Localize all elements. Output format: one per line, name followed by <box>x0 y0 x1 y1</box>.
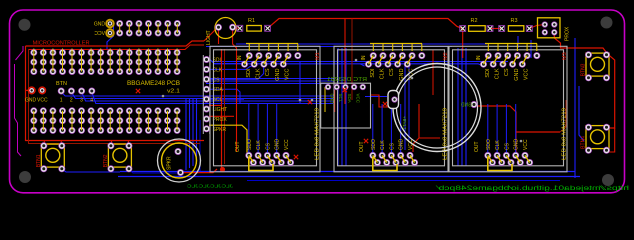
wire blue verticals M2 <box>337 48 339 166</box>
module U2 RTC DS3231 outline <box>321 83 371 128</box>
wire yellow M3 out bracket <box>488 157 512 171</box>
connector U1 microcontroller lower pad rows <box>31 108 37 114</box>
connector J2 outline <box>202 55 204 134</box>
svg-text:BTN3: BTN3 <box>581 63 587 76</box>
svg-text:CLK: CLK <box>495 68 501 79</box>
svg-text:2: 2 <box>70 98 73 104</box>
svg-text:+BAT1: +BAT1 <box>402 116 407 130</box>
switch BTN3 <box>586 53 609 76</box>
wire blue verticals left <box>185 98 187 170</box>
svg-text:BTN1: BTN1 <box>36 154 42 167</box>
wire blue J2 stubs <box>210 60 245 65</box>
svg-text:GND: GND <box>275 68 281 80</box>
svg-text:M2: M2 <box>443 52 449 60</box>
wire blue bus top <box>206 46 452 48</box>
wire yellow M2 out bracket <box>373 157 397 171</box>
svg-text:GND: GND <box>94 22 106 28</box>
svg-text:CLK: CLK <box>213 67 223 73</box>
svg-text:GND: GND <box>461 103 473 109</box>
wire blue M1 bottom drops <box>248 104 250 153</box>
svg-text:CLK: CLK <box>256 140 262 150</box>
wire yellow mcu column joins upper <box>33 49 35 72</box>
svg-text:VCC: VCC <box>523 139 529 150</box>
svg-text:SPKR: SPKR <box>167 156 173 170</box>
battery BT1 holder outer circle <box>393 64 481 152</box>
svg-text:R1: R1 <box>248 18 255 24</box>
svg-text:R2: R2 <box>471 18 478 24</box>
pad light 1 <box>215 24 221 30</box>
svg-text:LED 8x8 MAX7219: LED 8x8 MAX7219 <box>443 108 449 160</box>
wire red microcontroller box <box>26 46 205 141</box>
connector M1 OUT header pads <box>246 152 252 158</box>
svg-text:SDI: SDI <box>246 68 252 78</box>
connector M3 IN header pads <box>485 53 491 59</box>
connector U1 microcontroller upper pad rows <box>31 49 37 55</box>
svg-text:GND: GND <box>275 139 281 151</box>
svg-text:SDO: SDO <box>247 139 253 150</box>
svg-text:LIGHT: LIGHT <box>206 30 212 45</box>
wire yellow M2 out zigzag <box>373 155 378 162</box>
wire red M2 header drops <box>344 19 346 105</box>
svg-text:BTN2: BTN2 <box>103 154 109 167</box>
pad light 2 <box>230 24 236 30</box>
switch BTN4 <box>586 126 609 149</box>
svg-text:IN: IN <box>476 55 482 60</box>
wire yellow mcu column joins lower <box>33 111 35 131</box>
svg-text:R3: R3 <box>511 18 518 24</box>
svg-text:GND: GND <box>399 139 405 151</box>
wire red r1 chain to r2 r3 prox <box>233 27 240 28</box>
svg-text:GND: GND <box>25 98 37 104</box>
pad GND red ring <box>28 87 35 94</box>
svg-text:VCC: VCC <box>284 139 290 150</box>
wire blue M2 bottom drops <box>372 104 374 153</box>
pad spkr 2 <box>177 169 183 175</box>
wire yellow M1 out zigzag <box>249 155 254 162</box>
wire red m3 bottom <box>516 131 560 133</box>
svg-text:CS: CS <box>504 68 510 76</box>
pad battery gnd <box>471 101 477 107</box>
wire yellow M2 header top bar <box>370 43 422 45</box>
svg-text:3: 3 <box>80 98 83 104</box>
svg-text:CLK: CLK <box>380 140 386 150</box>
svg-text:BTN4: BTN4 <box>581 136 587 149</box>
svg-text:M3: M3 <box>562 52 568 60</box>
wire blue vertical right <box>574 38 576 178</box>
svg-text:OUT: OUT <box>235 141 241 152</box>
resistor R2 <box>469 26 486 32</box>
wire yellow M3 zigzag <box>484 56 489 65</box>
wire red rtc to battery <box>371 95 390 107</box>
board edge outline <box>10 10 625 193</box>
wire blue bottom rails <box>120 171 575 173</box>
wire yellow M1 out bracket <box>249 157 273 171</box>
wire yellow M3 header top bar <box>485 43 537 45</box>
wire blue top-left curve <box>107 26 114 50</box>
svg-text:VCC: VCC <box>94 31 105 37</box>
svg-text:CLK: CLK <box>256 68 262 79</box>
svg-text:IN: IN <box>361 55 367 60</box>
connector M2 OUT header pads <box>370 152 376 158</box>
module M2 LED 8x8 MAX7219 outline <box>334 46 448 172</box>
svg-text:VCC: VCC <box>524 68 530 80</box>
speaker SPKR outer circle <box>158 139 201 182</box>
wire yellow M1 header top bar <box>246 43 298 45</box>
wire red battery gnd right <box>478 106 516 152</box>
battery BT1 holder inner circle <box>397 67 478 148</box>
svg-text:GND: GND <box>514 68 520 80</box>
wire red vertical pair through M1 <box>221 49 223 168</box>
connector M3 OUT header pads <box>485 152 491 158</box>
switch BTN2 <box>108 144 131 167</box>
ratsnest x rtc <box>343 88 347 92</box>
svg-text:VCC: VCC <box>285 68 291 80</box>
svg-text:RTC DS3231: RTC DS3231 <box>327 77 367 83</box>
pad VCC red ring <box>39 87 46 94</box>
wire red r2 drop <box>462 29 464 58</box>
switch BTN1 <box>41 144 64 167</box>
svg-text:CS: CS <box>389 142 395 150</box>
svg-text:CLK: CLK <box>380 68 386 79</box>
pad battery positive <box>392 97 398 103</box>
connector PROX pads <box>542 22 548 28</box>
wire yellow rtc left <box>324 87 326 112</box>
wire blue R2 drop <box>517 36 519 48</box>
mounting hole bottom-left <box>19 171 31 183</box>
ratsnest marks <box>383 102 387 106</box>
photoresistor LIGHT outline <box>215 18 236 39</box>
svg-text:SCL: SCL <box>338 94 343 103</box>
connector J1 power header pads <box>106 20 113 27</box>
svg-text:LED 8x8 MAX7219: LED 8x8 MAX7219 <box>315 108 321 160</box>
module M3 LED 8x8 MAX7219 outline <box>449 46 567 172</box>
svg-text:CLK: CLK <box>495 140 501 150</box>
svg-text:SDI: SDI <box>370 68 376 78</box>
svg-text:VCC: VCC <box>356 94 361 104</box>
svg-text:LED 8x8 MAX7219: LED 8x8 MAX7219 <box>562 108 568 160</box>
svg-text:PROX: PROX <box>213 117 228 123</box>
svg-text:BBGAME248 PCB: BBGAME248 PCB <box>127 81 180 87</box>
connector J2 signal column <box>203 56 209 62</box>
svg-text:CS: CS <box>265 68 271 76</box>
svg-text:SDA: SDA <box>213 87 224 93</box>
svg-text:SDI: SDI <box>485 68 491 78</box>
speaker SPKR inner circle <box>162 143 197 178</box>
wire blue bus horizontal mid <box>212 61 508 63</box>
wire blue header bends M2 M3 <box>360 64 365 66</box>
svg-text:SDO: SDO <box>371 139 377 150</box>
svg-text:BTN: BTN <box>56 81 67 87</box>
wire magenta left squiggle <box>16 46 24 60</box>
wire yellow M1 zigzag <box>245 56 250 65</box>
svg-text:JLCJLCJLCJLC: JLCJLCJLCJLC <box>186 184 233 189</box>
svg-text:CS: CS <box>265 142 271 150</box>
mounting hole top-right <box>601 17 613 29</box>
wire red btn tops <box>43 141 45 147</box>
svg-text:LIGHT: LIGHT <box>213 107 228 113</box>
wire blue verticals M3 <box>457 48 459 166</box>
connector PROX outline <box>538 18 561 38</box>
svg-text:CS: CS <box>504 142 510 150</box>
svg-text:SDA: SDA <box>347 94 352 103</box>
wire red light net <box>209 104 222 106</box>
wire red to light sensor <box>204 29 219 42</box>
svg-text:CS: CS <box>389 68 395 76</box>
wire blue btn1 btn2 drops <box>61 169 120 172</box>
connector M2 IN header pads <box>370 53 376 59</box>
wire yellow M3 out zigzag <box>488 155 493 162</box>
svg-text:GND: GND <box>330 94 335 105</box>
svg-text:1: 1 <box>60 98 63 104</box>
svg-text:GND: GND <box>514 139 520 151</box>
svg-text:SDO: SDO <box>486 139 492 150</box>
svg-text:M1: M1 <box>315 52 321 60</box>
svg-text:v2.1: v2.1 <box>167 89 180 95</box>
wire red prox to btn3 btn4 <box>554 32 607 54</box>
svg-text:IN: IN <box>237 55 243 60</box>
svg-text:MICROCONTROLLER: MICROCONTROLLER <box>33 41 90 47</box>
resistor R3 <box>508 26 523 32</box>
svg-text:4: 4 <box>90 98 93 104</box>
wire red prox net <box>209 115 234 117</box>
svg-text:SPKR: SPKR <box>213 127 227 133</box>
mounting hole top-left <box>19 19 31 31</box>
connector RTC pads <box>325 84 331 90</box>
module M1 LED 8x8 MAX7219 outline <box>210 46 320 172</box>
wire yellow M2 zigzag <box>369 56 374 65</box>
connector M1 IN header pads <box>246 53 252 59</box>
svg-text:VCC: VCC <box>37 98 48 104</box>
mounting hole bottom-right <box>602 174 614 186</box>
wire yellow spkr net <box>209 125 247 156</box>
wire red m2 bottom vcc <box>413 104 419 152</box>
svg-text:OUT: OUT <box>474 141 480 152</box>
pad spkr 1 <box>175 148 181 154</box>
svg-text:https:∕∕mtejeda01.github.io∕bb: https:∕∕mtejeda01.github.io∕bbgame248pcb… <box>436 185 629 192</box>
connector BTN pads 1-4 <box>58 88 64 94</box>
wire yellow top header joins <box>119 24 121 34</box>
battery BT1 tab <box>388 91 399 109</box>
resistor R1 <box>247 26 261 32</box>
wire blue M3 bottom drops <box>487 104 489 153</box>
wire red gnd vcc stub <box>26 89 35 91</box>
wire red spkr <box>184 169 217 173</box>
svg-text:PROX: PROX <box>565 26 571 41</box>
